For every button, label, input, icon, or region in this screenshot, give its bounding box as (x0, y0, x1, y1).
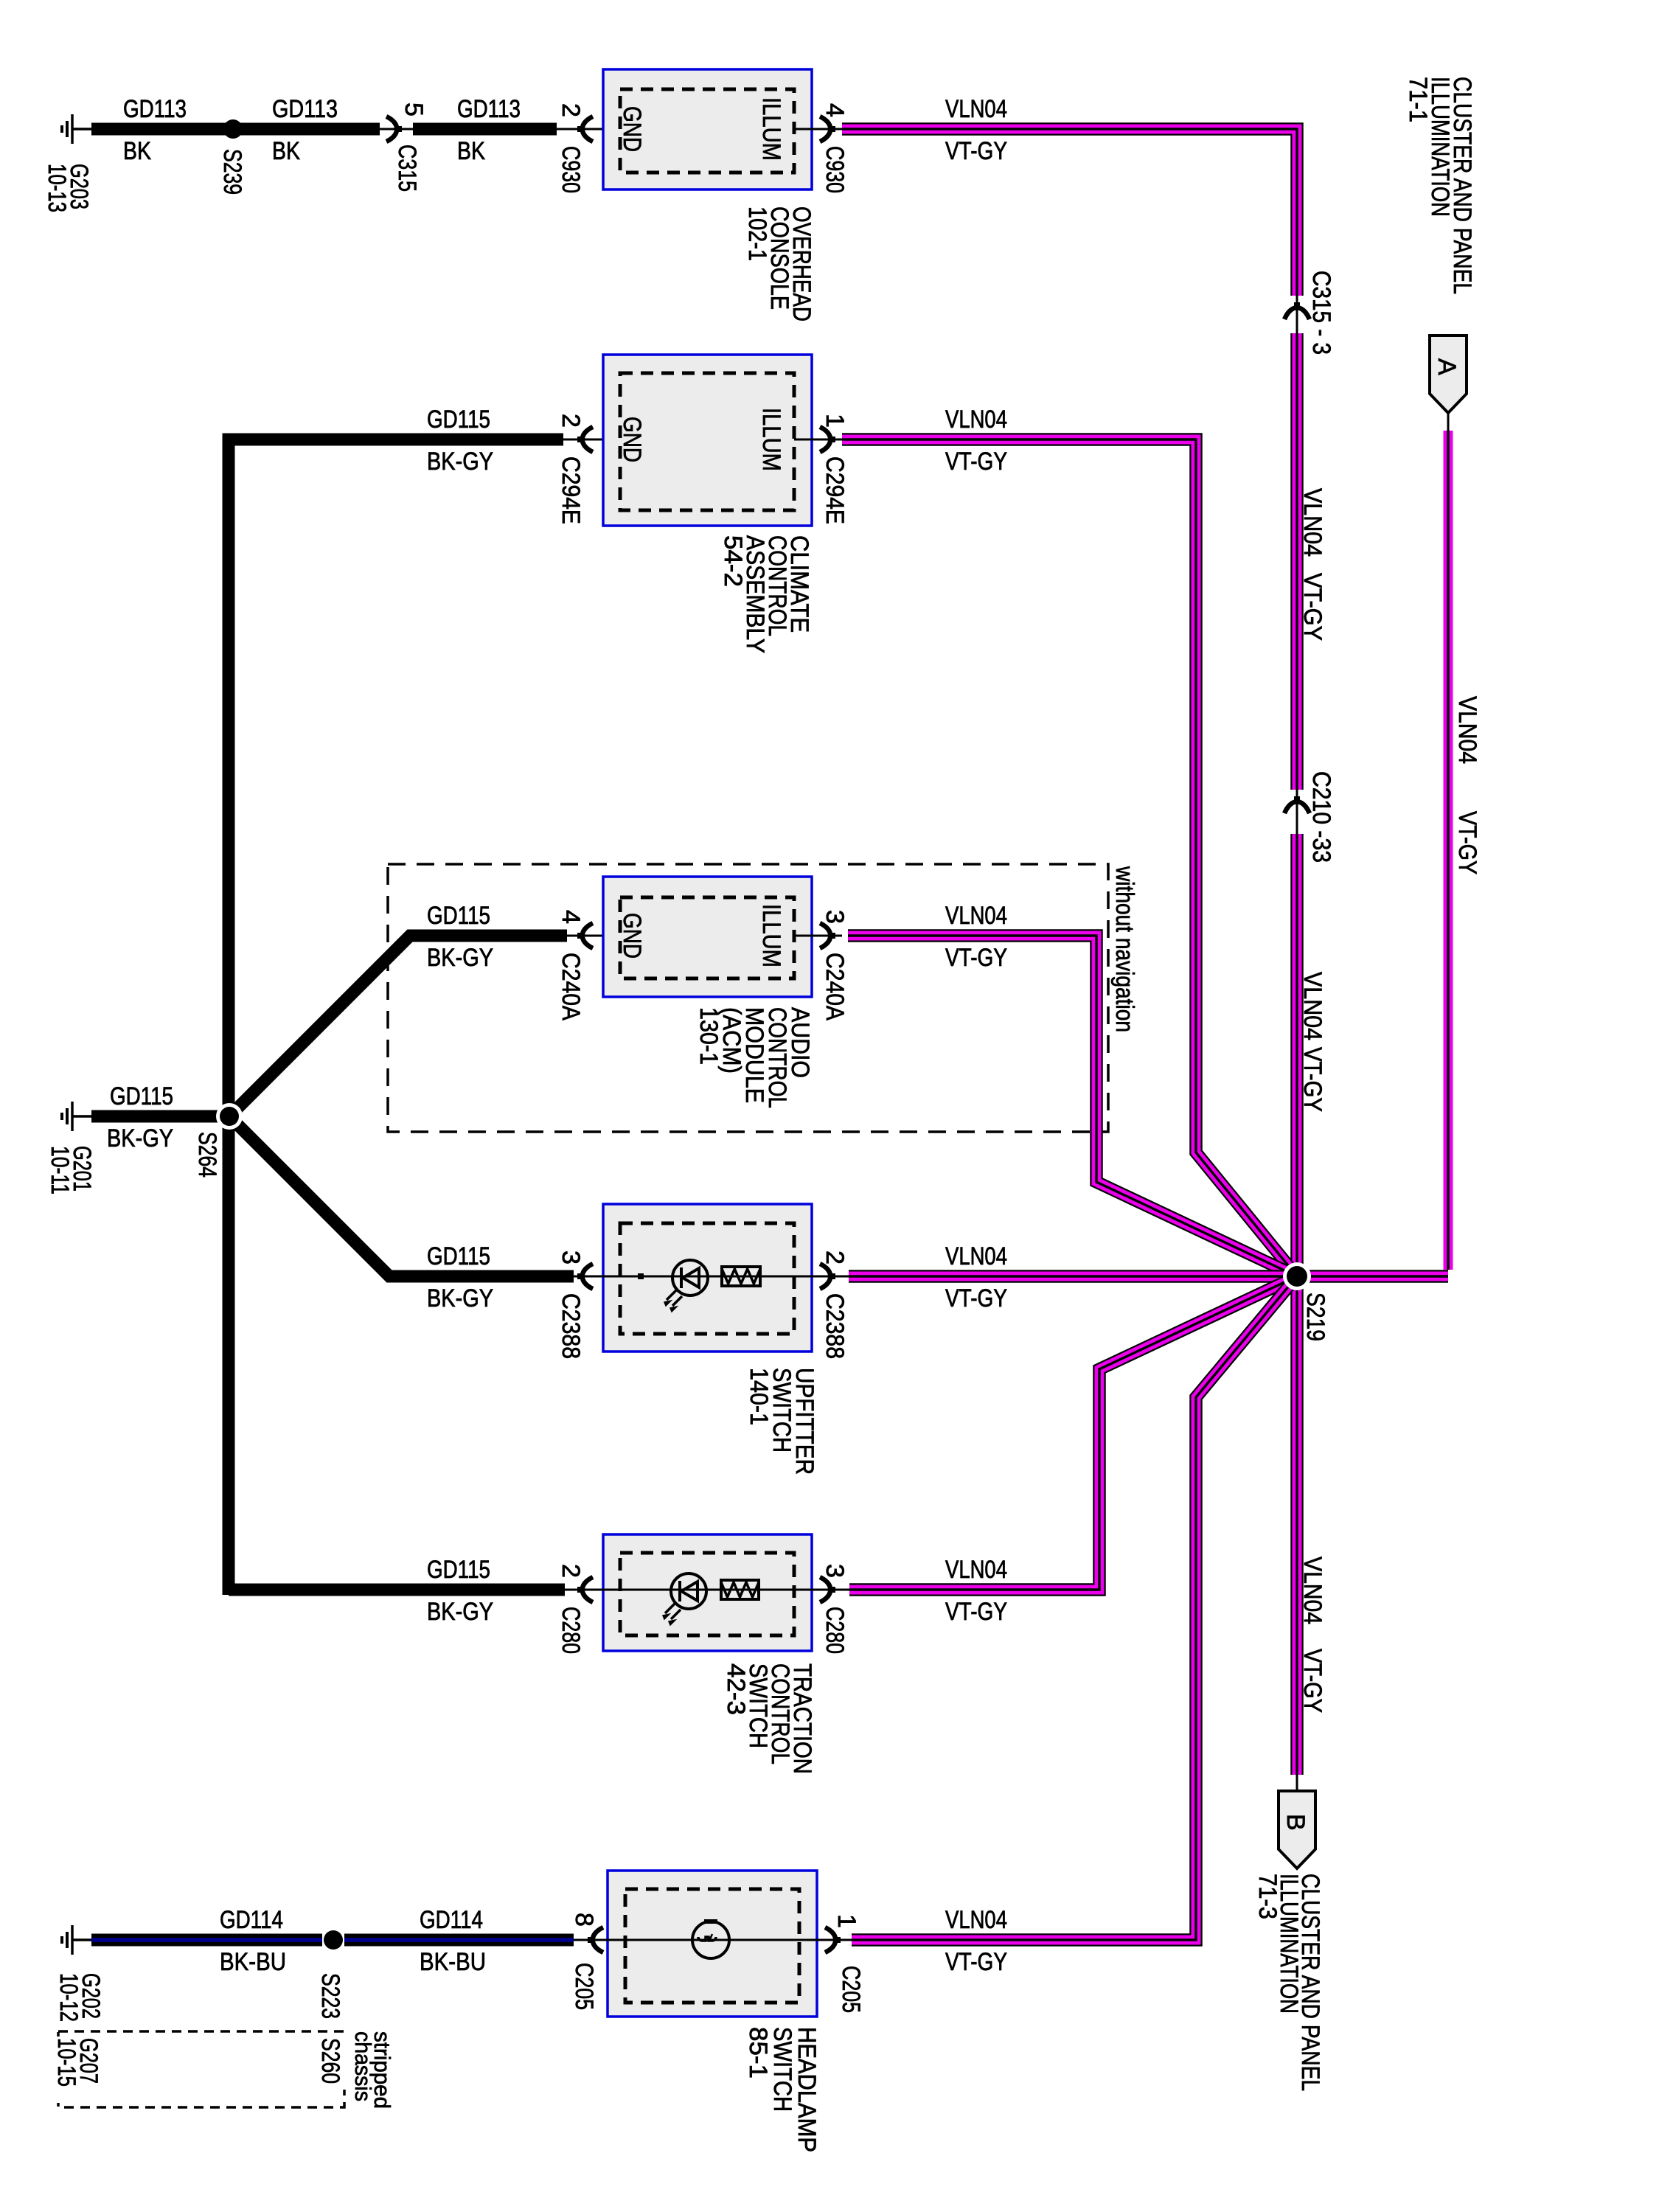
svg-text:chassis: chassis (350, 2031, 376, 2101)
svg-text:VLN04: VLN04 (1298, 972, 1326, 1040)
svg-text:A: A (1433, 358, 1461, 375)
svg-text:2: 2 (557, 103, 585, 117)
svg-text:102-1: 102-1 (743, 206, 771, 261)
svg-text:VLN04: VLN04 (1298, 488, 1326, 557)
svg-text:S239: S239 (218, 149, 246, 195)
svg-text:54-2: 54-2 (719, 535, 747, 587)
svg-text:VLN04: VLN04 (1453, 696, 1481, 764)
svg-text:VT-GY: VT-GY (945, 1948, 1007, 1976)
svg-text:2: 2 (557, 1564, 585, 1578)
svg-text:C210 -33: C210 -33 (1307, 771, 1335, 863)
svg-text:VT-GY: VT-GY (945, 944, 1007, 972)
svg-text:GD114: GD114 (220, 1906, 283, 1934)
svg-text:BK-BU: BK-BU (220, 1948, 286, 1976)
svg-text:BK-GY: BK-GY (107, 1124, 173, 1152)
svg-text:ILLUM: ILLUM (757, 408, 785, 471)
svg-text:VT-GY: VT-GY (1298, 573, 1326, 641)
svg-text:VLN04: VLN04 (945, 902, 1007, 930)
svg-text:1: 1 (832, 1914, 860, 1928)
svg-text:GD114: GD114 (420, 1906, 483, 1934)
svg-text:GND: GND (618, 913, 646, 959)
svg-text:VT-GY: VT-GY (1298, 1047, 1326, 1112)
svg-text:10-13: 10-13 (43, 164, 71, 212)
svg-text:VLN04: VLN04 (945, 95, 1007, 123)
svg-text:C294E: C294E (821, 456, 849, 524)
svg-text:C280: C280 (557, 1607, 585, 1654)
svg-text:BK-GY: BK-GY (427, 1598, 493, 1626)
svg-text:without navigation: without navigation (1110, 866, 1138, 1032)
svg-text:ILLUM: ILLUM (757, 97, 785, 161)
svg-text:VT-GY: VT-GY (1453, 811, 1481, 874)
svg-text:C930: C930 (821, 146, 849, 193)
svg-text:C240A: C240A (821, 953, 849, 1020)
svg-text:4: 4 (557, 910, 585, 924)
svg-text:140-1: 140-1 (745, 1368, 773, 1425)
svg-text:GD115: GD115 (427, 902, 490, 930)
svg-text:S223: S223 (316, 1973, 344, 2019)
svg-text:BK-GY: BK-GY (427, 448, 493, 476)
svg-text:C240A: C240A (557, 953, 585, 1020)
svg-text:42-3: 42-3 (722, 1663, 750, 1715)
svg-text:VT-GY: VT-GY (1298, 1649, 1326, 1713)
svg-text:C315: C315 (393, 145, 421, 192)
svg-text:C2388: C2388 (557, 1293, 585, 1359)
svg-text:S260: S260 (316, 2038, 344, 2084)
svg-text:BK: BK (457, 137, 485, 165)
svg-text:VLN04: VLN04 (945, 406, 1007, 434)
svg-text:S219: S219 (1301, 1293, 1329, 1341)
svg-text:GD115: GD115 (427, 1556, 490, 1584)
svg-text:2: 2 (821, 1251, 849, 1265)
svg-text:GND: GND (618, 106, 646, 152)
svg-text:8: 8 (570, 1913, 598, 1927)
svg-text:BK-BU: BK-BU (420, 1948, 486, 1976)
svg-text:VLN04: VLN04 (945, 1242, 1007, 1270)
svg-text:C205: C205 (570, 1963, 598, 2010)
svg-text:S264: S264 (193, 1132, 221, 1178)
svg-text:130-1: 130-1 (695, 1007, 723, 1065)
svg-text:GD113: GD113 (123, 95, 187, 123)
svg-text:VLN04: VLN04 (1298, 1557, 1326, 1624)
svg-text:85-1: 85-1 (744, 2027, 772, 2079)
svg-text:VLN04: VLN04 (945, 1906, 1007, 1934)
svg-text:GND: GND (618, 417, 646, 462)
svg-text:GD113: GD113 (272, 95, 338, 123)
svg-text:3: 3 (821, 910, 849, 924)
svg-text:3: 3 (557, 1251, 585, 1265)
svg-text:VT-GY: VT-GY (945, 1284, 1007, 1312)
svg-text:BK-GY: BK-GY (427, 944, 493, 972)
svg-text:BK: BK (123, 137, 151, 165)
svg-text:VT-GY: VT-GY (945, 1598, 1007, 1626)
svg-text:C930: C930 (557, 146, 585, 193)
svg-text:10-11: 10-11 (46, 1146, 74, 1194)
svg-text:VT-GY: VT-GY (945, 137, 1007, 165)
svg-text:GD115: GD115 (427, 1242, 490, 1270)
svg-text:C280: C280 (821, 1607, 849, 1654)
svg-text:3: 3 (821, 1564, 849, 1578)
svg-text:VLN04: VLN04 (945, 1556, 1007, 1584)
svg-text:C205: C205 (837, 1966, 865, 2013)
svg-text:B: B (1281, 1814, 1310, 1831)
svg-text:GD115: GD115 (427, 406, 490, 434)
svg-text:10-15: 10-15 (52, 2038, 80, 2087)
svg-text:71-1: 71-1 (1404, 77, 1432, 122)
svg-text:C2388: C2388 (821, 1293, 849, 1359)
svg-text:10-12: 10-12 (55, 1973, 83, 2022)
svg-text:VT-GY: VT-GY (945, 448, 1007, 476)
svg-text:2: 2 (557, 414, 585, 428)
svg-text:4: 4 (821, 103, 849, 117)
svg-text:C294E: C294E (557, 456, 585, 524)
svg-text:5: 5 (400, 102, 428, 116)
svg-text:GD115: GD115 (110, 1082, 173, 1110)
svg-text:ILLUM: ILLUM (757, 904, 785, 967)
svg-text:71-3: 71-3 (1253, 1874, 1281, 1919)
svg-text:BK-GY: BK-GY (427, 1284, 493, 1312)
svg-text:GD113: GD113 (457, 95, 521, 123)
svg-text:BK: BK (272, 137, 300, 165)
svg-text:C315 - 3: C315 - 3 (1307, 271, 1335, 355)
svg-text:1: 1 (821, 414, 849, 428)
